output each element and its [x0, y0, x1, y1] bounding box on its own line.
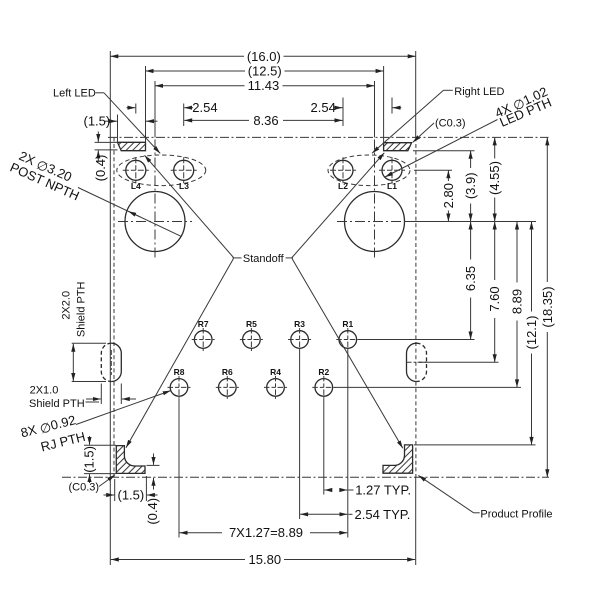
svg-text:R3: R3 [294, 319, 305, 329]
svg-text:Shield PTH: Shield PTH [29, 398, 85, 410]
shield slot right (2x1.0) half hidden [407, 343, 417, 381]
svg-text:8.36: 8.36 [253, 113, 278, 128]
svg-text:(18.35): (18.35) [540, 286, 555, 327]
LED oval right (dashed) [328, 155, 410, 186]
dimension 1.0 slot width [86, 384, 136, 405]
pin R8 [168, 367, 191, 399]
dimension (12.1) [524, 222, 539, 445]
svg-text:R5: R5 [246, 319, 257, 329]
dimension 2.80 [441, 170, 456, 221]
svg-text:Product Profile: Product Profile [480, 508, 552, 520]
svg-text:L1: L1 [387, 181, 397, 191]
label 8X 0.92 RJ PTH with leader [19, 391, 171, 455]
svg-text:L3: L3 [179, 181, 189, 191]
dimension 8.89 [510, 222, 525, 388]
svg-text:1.27 TYP.: 1.27 TYP. [355, 483, 411, 498]
svg-text:2X2.0: 2X2.0 [60, 291, 72, 320]
dimension 2.54 (left LED pair) [127, 100, 218, 126]
pin R3 [288, 319, 311, 351]
top-left dimension (0.4) pad thickness [93, 132, 118, 182]
svg-text:6.35: 6.35 [463, 266, 478, 291]
label Right LED with leader [372, 86, 504, 153]
LED oval left (dashed) [117, 155, 206, 186]
dimension 11.43 [155, 78, 375, 137]
svg-text:(12.1): (12.1) [524, 316, 539, 350]
svg-text:R7: R7 [198, 319, 209, 329]
svg-text:8.89: 8.89 [510, 289, 525, 314]
dimension 2.54 (right LED pair) [311, 98, 402, 127]
svg-text:(C0.3): (C0.3) [69, 481, 100, 493]
bottom dimension (1.5) foot width [104, 476, 158, 503]
LED hole L2 [333, 160, 353, 180]
svg-text:R1: R1 [342, 319, 353, 329]
label Product Profile with leader [418, 475, 552, 520]
dimension 6.35 [463, 222, 478, 340]
dimension 7X1.27=8.89 [180, 525, 348, 540]
ext line post centre row [406, 221, 536, 223]
left product edge (hidden) [113, 137, 115, 477]
dimension (3.9) [463, 151, 478, 222]
ext line pin R3 column [299, 351, 301, 519]
right extension line bottom [415, 477, 417, 565]
svg-text:Left LED: Left LED [53, 87, 96, 99]
ext line top pin row [359, 339, 475, 341]
svg-text:Right LED: Right LED [454, 86, 504, 98]
svg-text:Standoff: Standoff [243, 253, 285, 265]
ext line LED row [414, 169, 452, 171]
product profile foot right (hatched L) [383, 445, 413, 473]
dimension (12.5) [146, 63, 384, 142]
pin R2 [312, 367, 335, 399]
bottom PCB centerline [62, 476, 549, 478]
svg-text:L2: L2 [338, 181, 348, 191]
ext line slot centre [419, 361, 499, 363]
ext line pin R2 column [323, 399, 325, 495]
svg-text:2.54: 2.54 [192, 100, 217, 115]
svg-text:11.43: 11.43 [248, 78, 280, 93]
svg-text:2.54 TYP.: 2.54 TYP. [355, 507, 411, 522]
dimension 8.36 [184, 113, 342, 128]
dimension (16.0) [110, 49, 415, 64]
pin R7 [192, 319, 215, 351]
dimension 2.0 slot height [72, 343, 106, 381]
pin R5 [240, 319, 263, 351]
label Left LED with leader [53, 87, 160, 153]
label 2X 3.20 POST NPTH with leader [8, 148, 181, 236]
svg-text:Shield PTH: Shield PTH [76, 281, 88, 337]
top edge centerline [108, 136, 549, 138]
bottom-left dimension (1.5) profile height (rotated) [82, 436, 117, 483]
post hole left (3.20 NPTH) [125, 192, 185, 252]
product profile foot left (hatched L) [116, 446, 145, 474]
right product edge (hidden) [415, 137, 417, 477]
dimension 7.60 [487, 222, 502, 363]
standoff pad right (hatched) [384, 143, 412, 151]
ext line pin R1 column [347, 351, 349, 538]
ext line pin R8 column [178, 399, 180, 538]
right extension line top [415, 51, 417, 137]
label 2X2.0 Shield PTH (rotated) [60, 281, 87, 337]
svg-text:R8: R8 [174, 367, 185, 377]
label (C0.3) bottom left with leader [69, 475, 115, 493]
svg-text:(1.5): (1.5) [118, 488, 145, 503]
svg-text:(4.55): (4.55) [487, 161, 502, 195]
LED hole L1 [382, 160, 402, 180]
label 2X1.0 Shield PTH [29, 385, 99, 410]
ext line standoff pad bottom [413, 150, 475, 152]
ext line bottom pin row [335, 386, 521, 388]
svg-text:7.60: 7.60 [487, 286, 502, 311]
pin R4 [264, 367, 287, 399]
svg-text:L4: L4 [131, 181, 141, 191]
svg-text:(1.5): (1.5) [82, 446, 97, 473]
svg-text:R6: R6 [222, 367, 233, 377]
svg-text:15.80: 15.80 [249, 552, 282, 567]
svg-text:(0.4): (0.4) [145, 498, 160, 525]
svg-text:7X1.27=8.89: 7X1.27=8.89 [229, 525, 303, 540]
svg-text:2X1.0: 2X1.0 [30, 385, 59, 397]
svg-text:R4: R4 [270, 367, 281, 377]
svg-text:(C0.3): (C0.3) [435, 117, 466, 129]
top-left dimension (1.5) pad width [84, 114, 158, 143]
bottom dimension (0.4) foot clearance [145, 454, 160, 525]
post hole right (3.20 NPTH) [345, 192, 405, 252]
dimension (4.55) [487, 137, 502, 221]
shield slot left (2x1.0) half hidden [111, 343, 121, 381]
svg-text:(0.4): (0.4) [93, 155, 108, 182]
LED hole L3 [174, 160, 194, 180]
svg-text:(3.9): (3.9) [463, 172, 478, 199]
label Standoff with 4 leaders [126, 153, 403, 449]
LED hole L4 [126, 160, 146, 180]
svg-text:(1.5): (1.5) [84, 114, 111, 129]
ext line profile top right [414, 444, 536, 446]
dimension 2.54 TYP. [300, 507, 410, 522]
dimension 15.80 [111, 552, 415, 567]
svg-text:2.54: 2.54 [311, 100, 336, 115]
left extension line (16.0/15.80 datum) [109, 51, 111, 565]
pin R6 [216, 367, 239, 399]
svg-text:R2: R2 [318, 367, 329, 377]
dimension (18.35) [540, 137, 555, 477]
standoff pad left (hatched) [118, 142, 146, 150]
svg-text:(12.5): (12.5) [248, 63, 282, 78]
pin R1 [336, 319, 359, 351]
label 4X 1.02 LED PTH with leader [385, 84, 554, 177]
svg-text:(16.0): (16.0) [247, 49, 281, 64]
dimension 1.27 TYP. [324, 483, 411, 498]
label (C0.3) top right with leader [413, 117, 466, 142]
svg-text:2.80: 2.80 [441, 183, 456, 208]
